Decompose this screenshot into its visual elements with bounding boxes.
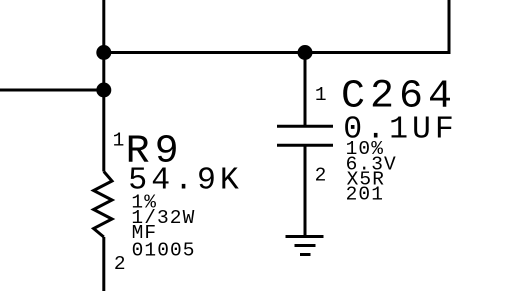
- ground symbol: [286, 237, 324, 255]
- svg-text:201: 201: [346, 184, 384, 206]
- junction: left wire at resistor net: [96, 83, 111, 98]
- junction: top wire at capacitor C264: [298, 45, 313, 60]
- capacitor C264 plates: [277, 126, 333, 145]
- wire: vertical net into top edge down to resistor R9 pin 1: [102, 0, 105, 172]
- wire: capacitor C264 pin 2 lead to ground: [304, 147, 307, 237]
- resistor R9 zigzag body: [94, 172, 112, 238]
- wire: resistor R9 pin 2 lead to bottom edge: [102, 237, 105, 291]
- junction: top wire at resistor net: [96, 45, 111, 60]
- wire: left horizontal net from left edge to junction: [0, 89, 104, 92]
- svg-text:2: 2: [315, 165, 328, 187]
- wire: top horizontal net from junction to right, turning up to top edge: [104, 0, 449, 53]
- svg-text:1: 1: [113, 130, 126, 152]
- svg-text:1: 1: [315, 84, 328, 106]
- svg-text:2: 2: [114, 253, 127, 275]
- wire: capacitor C264 pin 1 lead: [304, 53, 307, 126]
- svg-text:01005: 01005: [132, 240, 196, 262]
